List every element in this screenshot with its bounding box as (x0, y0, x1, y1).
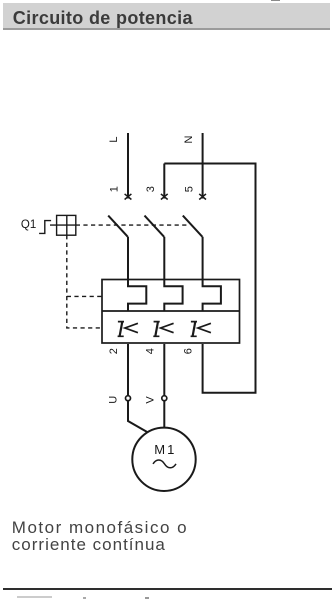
terminal circle V (162, 396, 167, 401)
wire pole 3 with overload hook (203, 237, 221, 311)
wire pole 1 output to U (127, 344, 129, 396)
svg-text:N: N (183, 135, 195, 143)
motor AC sine symbol (153, 460, 176, 468)
actuator Q1 square (57, 215, 76, 235)
terminal cross 1 (125, 194, 132, 200)
svg-text:2: 2 (108, 348, 120, 354)
svg-text:V: V (145, 396, 157, 404)
wire N branch and right return loop (164, 164, 255, 393)
undercurrent release symbol I< pole 3 (191, 322, 211, 337)
undercurrent release symbol I< pole 2 (153, 322, 173, 337)
actuator Q1 square cross lines (50, 215, 76, 235)
svg-text:5: 5 (183, 186, 195, 192)
svg-text:1: 1 (109, 186, 121, 192)
terminal cross 3 (161, 194, 168, 200)
breaker Q1 pole 2 blade (145, 216, 165, 237)
wire V lead to motor (163, 401, 165, 428)
top edge artifact (271, 0, 280, 1)
terminal cross 5 (199, 194, 206, 200)
svg-text:4: 4 (144, 348, 156, 354)
wire U lead to motor (128, 401, 148, 433)
svg-text:6: 6 (183, 348, 195, 354)
overload relay box (102, 280, 240, 344)
svg-text:M1: M1 (154, 442, 176, 457)
wire pole 2 drop to terminal 3 (163, 164, 165, 199)
overload relay box divider (102, 310, 240, 312)
breaker Q1 pole 3 blade (183, 216, 203, 237)
terminal circle U (126, 396, 131, 401)
svg-text:3: 3 (145, 186, 157, 192)
header band (3, 3, 330, 30)
breaker Q1 pole 1 blade (108, 216, 128, 237)
wire pole 2 with overload hook (164, 237, 182, 311)
actuator Q1 manual lever step symbol (39, 221, 51, 234)
cut-off caption fragments (17, 596, 52, 598)
svg-text:L: L (108, 137, 120, 143)
svg-text:U: U (107, 396, 119, 404)
wire N supply line (202, 133, 204, 199)
dashed linkage to blades (76, 224, 188, 226)
wire L supply line (127, 133, 129, 199)
caption text (12, 519, 188, 553)
wire pole 2 output to V (163, 344, 165, 396)
dashed linkage down to trip unit (67, 235, 102, 328)
motor M1 circle (132, 428, 195, 491)
undercurrent release symbol I< pole 1 (118, 322, 138, 337)
dashed linkage into thermal row (67, 295, 102, 297)
wire pole 1 with overload hook (128, 237, 146, 311)
bottom rule (3, 588, 332, 590)
svg-text:Q1: Q1 (21, 219, 36, 231)
